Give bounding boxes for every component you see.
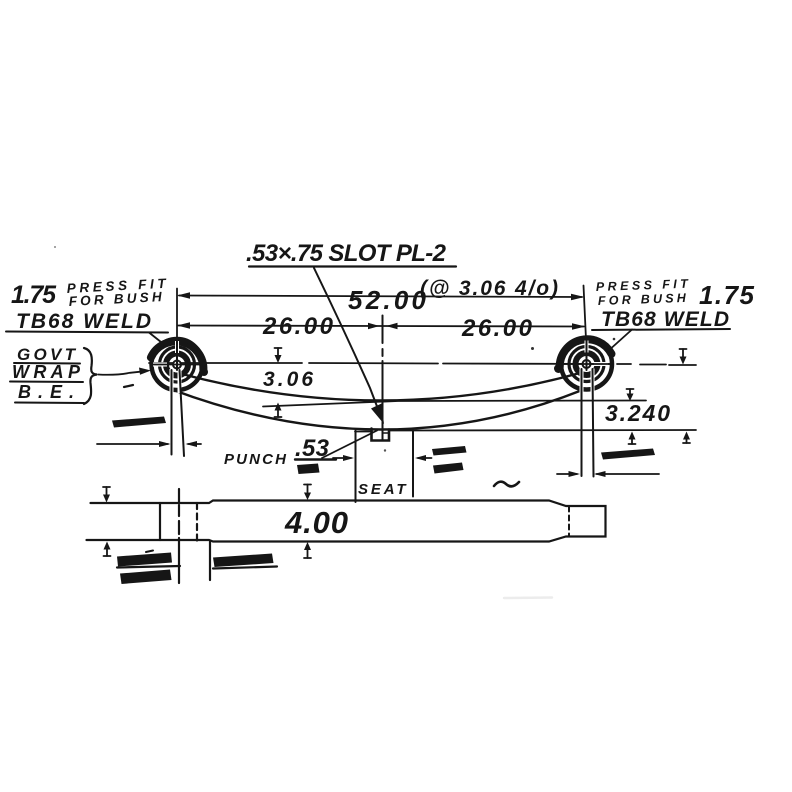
svg-text:(@ 3.06 4/o): (@ 3.06 4/o)	[420, 277, 558, 300]
redaction blob right of seat upper	[432, 446, 467, 456]
text B.E.	[18, 382, 74, 402]
text 3.240	[605, 400, 670, 426]
tick arrow seat height top	[682, 349, 684, 358]
center tick of 26.00 dims	[382, 316, 384, 337]
arrowhead 52.00 right	[571, 294, 585, 300]
bar long vertical line (left eye trace)	[178, 489, 180, 502]
small dash near eye	[124, 385, 133, 387]
svg-text:26.00: 26.00	[262, 313, 334, 340]
tick arrow bar right top	[307, 485, 309, 493]
redaction blob bottom left lower	[120, 570, 172, 585]
text 26.00 left	[262, 313, 334, 340]
tilde mark	[494, 482, 519, 487]
tick arrow 3.06 top	[277, 348, 279, 357]
text TB68 WELD right	[601, 308, 729, 331]
tick arrow seat height bottom	[686, 438, 688, 443]
label slot callout text	[246, 240, 447, 267]
punch .53 underline	[295, 458, 336, 460]
left spring eye	[151, 338, 208, 393]
text WRAP	[12, 362, 81, 382]
seat datum line 3.240	[390, 429, 696, 432]
seat dimension arrow right	[418, 457, 432, 459]
bar right end dashed line	[568, 507, 570, 537]
tick arrow bar left top	[106, 487, 108, 495]
dimension line 52.00	[179, 296, 582, 298]
faint scan line	[504, 596, 552, 599]
bar internal solid line	[159, 503, 161, 540]
extension lines below left eye	[171, 370, 173, 455]
horizontal centerline through eyes	[149, 362, 302, 364]
text FOR BUSH left	[68, 289, 162, 309]
redaction blob bottom middle	[213, 554, 274, 568]
text PRESS FIT left	[66, 276, 167, 296]
extension line left eye top	[176, 289, 178, 340]
TB68 right leader	[607, 330, 632, 353]
redaction blob right of right eye	[601, 449, 655, 460]
slot leader line	[314, 268, 378, 409]
svg-text:3.240: 3.240	[605, 400, 670, 426]
arrowhead at center pointing left	[386, 323, 398, 329]
text PRESS FIT right	[596, 277, 690, 294]
text .53 (punch)	[295, 435, 330, 462]
right spring eye	[554, 338, 612, 393]
svg-text:52.00: 52.00	[348, 285, 427, 315]
text GOVT	[17, 345, 77, 364]
svg-text:1.75: 1.75	[699, 280, 755, 310]
slot leader arrowhead	[371, 404, 384, 425]
svg-text:.53×.75 SLOT PL-2: .53×.75 SLOT PL-2	[246, 240, 447, 267]
leaf top arc	[184, 374, 578, 401]
TB68 WELD left underline	[6, 332, 168, 333]
redaction blob near left eye	[112, 417, 166, 428]
text PUNCH	[224, 451, 287, 468]
tick arrow 3.240 top	[629, 389, 631, 395]
bar below step vertical	[209, 542, 211, 581]
arrowhead 26.00 far right	[572, 323, 586, 329]
text TB68 WELD left	[16, 310, 151, 333]
dimension line 26.00 + 26.00	[178, 326, 584, 327]
redaction blob bottom left upper	[117, 553, 172, 567]
seat extension line left	[355, 431, 357, 503]
text SEAT	[358, 481, 407, 498]
text 1.75 right	[699, 280, 755, 310]
text (@ 3.06 4/o)	[420, 277, 558, 300]
right eye width dimension	[557, 473, 577, 475]
svg-text:4.00: 4.00	[284, 505, 348, 540]
text 1.75 left	[11, 281, 57, 309]
extension line right eye top	[584, 286, 587, 340]
svg-text:3.06: 3.06	[263, 368, 313, 391]
punch leader	[322, 431, 377, 459]
svg-text:26.00: 26.00	[461, 315, 533, 342]
TB68 WELD right underline	[592, 329, 730, 330]
seat dimension arrow left	[333, 457, 351, 459]
svg-text:PUNCH: PUNCH	[224, 451, 287, 468]
leaf bottom arc	[172, 390, 581, 430]
tick arrow bar right bottom	[307, 550, 309, 558]
arrowhead 26.00 far left	[177, 322, 190, 329]
svg-text:TB68 WELD: TB68 WELD	[601, 308, 729, 331]
text 4.00	[284, 505, 348, 540]
arrowhead 52.00 left	[177, 292, 190, 299]
svg-text:.53: .53	[295, 435, 330, 462]
tick arrow bar left bottom	[106, 549, 108, 556]
arrowhead at center pointing right	[368, 323, 380, 329]
tick arrow 3.06 bottom	[277, 409, 279, 417]
govt wrap arrow	[98, 371, 145, 375]
TB68 left leader	[149, 333, 166, 347]
seat extension line right	[412, 431, 414, 497]
left eye width dimension	[97, 443, 168, 445]
redaction blob right of seat lower	[433, 463, 464, 474]
text 26.00 right	[461, 315, 533, 342]
specks	[54, 246, 56, 248]
center slot	[372, 429, 390, 441]
datum line (straight leaf position)	[263, 401, 646, 407]
slot callout underline	[249, 265, 456, 267]
plan view bar outline	[87, 501, 606, 542]
text 3.06	[263, 368, 313, 391]
bar hidden dashed line	[196, 503, 198, 541]
vertical centerline of spring	[382, 316, 384, 343]
extension lines below right eye	[581, 369, 583, 476]
svg-text:TB68 WELD: TB68 WELD	[16, 310, 151, 333]
punch redaction blob	[297, 464, 320, 475]
svg-text:1.75: 1.75	[11, 281, 57, 309]
govt wrap brace	[84, 348, 97, 404]
text FOR BUSH right	[598, 291, 687, 308]
text 52.00	[348, 285, 427, 315]
tick arrow 3.240 bottom	[631, 438, 633, 444]
